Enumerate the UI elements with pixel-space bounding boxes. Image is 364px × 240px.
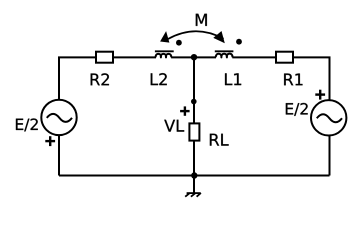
resistor R1 [276,52,293,63]
resistor RL [189,123,199,140]
label L1 [225,73,241,85]
wire bottom [59,175,330,177]
arrowhead left of M arc [160,31,169,42]
wire left rail bottom [58,135,60,175]
plus polarity VL [180,106,190,115]
ground [185,193,201,197]
mutual coupling arc M [168,31,224,39]
wire RL to bottom [193,142,195,176]
resistor R2 [96,52,113,63]
source E/2 left [41,100,76,135]
label RL [210,134,229,146]
plus polarity left source [45,136,55,146]
arrowhead right of M arc [213,31,225,43]
source E/2 right [311,100,346,135]
label R1 [284,74,302,86]
wire R2 to L2 [113,56,156,58]
wire R1 to top-right rail [293,57,330,100]
plus polarity right source [315,90,325,100]
wire node A down to RL [193,57,195,122]
wire node A to L1 [194,56,216,58]
wire L1 to R1 [232,56,276,58]
inductor L1 [215,51,234,57]
wire ground stub [193,176,195,194]
wire top-left rail and top wire to R2 [59,57,96,100]
label E/2 left [16,118,38,131]
bottom junction dot [191,172,197,178]
coupling dot right (L1) [236,39,242,45]
label M [196,14,207,26]
wire right rail bottom [329,136,331,176]
coupling dot left (L2) [176,40,182,46]
wire L2 to node A [171,56,194,58]
label R2 [91,73,109,85]
inductor L2 [155,51,174,57]
label L2 [151,73,167,85]
label VL [164,120,184,132]
node VL dot [191,99,197,105]
label E/2 right [286,103,308,116]
node A junction dot [191,54,197,60]
